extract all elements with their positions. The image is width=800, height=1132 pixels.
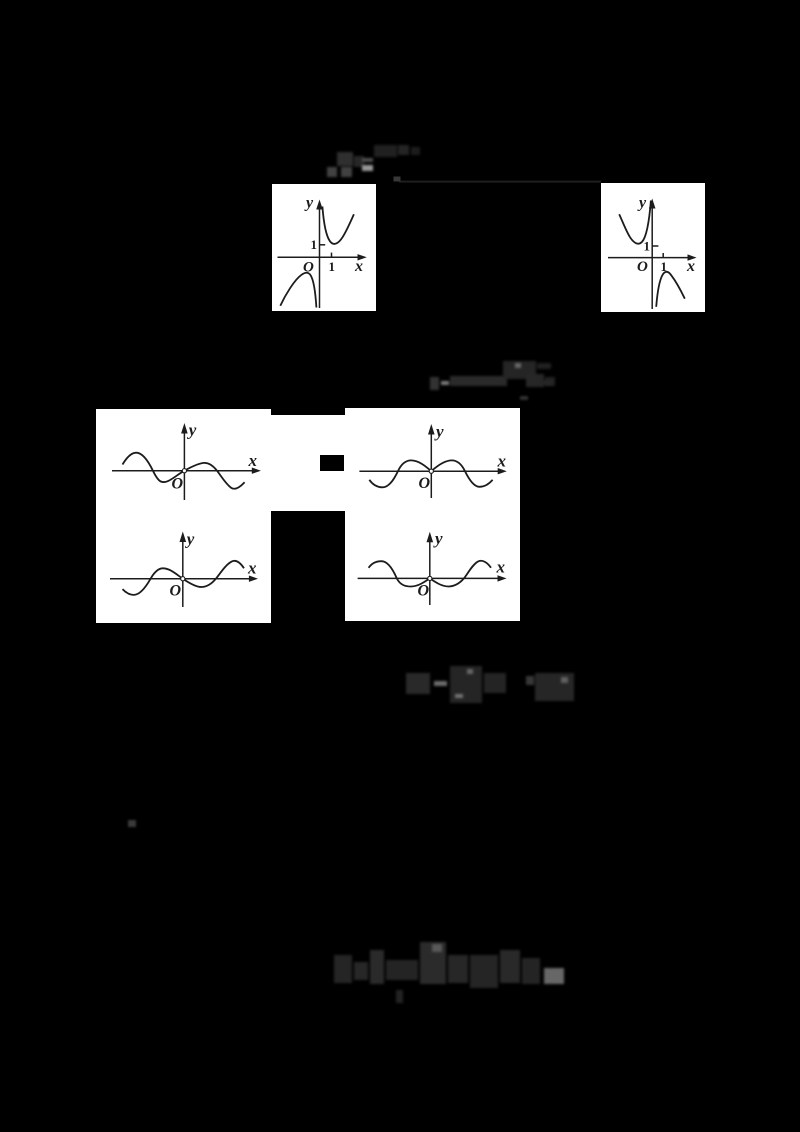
svg-text:O: O	[418, 583, 430, 600]
black square in gap	[320, 455, 344, 471]
white box 1	[272, 184, 376, 311]
svg-text:y: y	[433, 529, 443, 548]
sine graph bottom-left arrowheads	[180, 532, 187, 543]
svg-text:1: 1	[661, 259, 668, 274]
sine graph top-left axes	[112, 430, 253, 500]
svg-text:1: 1	[644, 239, 651, 254]
faint dot mid-left	[128, 820, 136, 827]
svg-text:O: O	[419, 475, 431, 492]
sine graph top-right curve	[369, 460, 492, 487]
sine graph top-right axes	[359, 431, 498, 498]
svg-text:x: x	[686, 258, 695, 275]
white gap strip	[271, 415, 345, 511]
sine graph bottom-right origin circle	[428, 576, 432, 580]
sine graph bottom-right axes	[358, 539, 499, 605]
sine graph top-right arrowheads	[428, 424, 435, 435]
box2 arrowheads	[649, 199, 656, 209]
svg-text:y: y	[304, 195, 314, 212]
sine graph top-left arrowheads	[181, 423, 188, 434]
box1 curve right branch	[322, 207, 354, 244]
svg-text:x: x	[247, 559, 257, 578]
box2 axes	[608, 207, 689, 309]
white left sine box	[96, 409, 271, 623]
svg-text:y: y	[637, 195, 647, 212]
sine graph bottom-left origin circle	[181, 577, 185, 581]
svg-text:O: O	[303, 260, 314, 276]
svg-text:x: x	[354, 258, 363, 275]
faint formula 1	[327, 145, 420, 177]
faint mark above right sine box	[520, 380, 552, 400]
sine graph top-left origin circle	[182, 469, 186, 473]
svg-text:y: y	[187, 421, 197, 440]
faint formula 2	[430, 361, 555, 390]
sine graph top-right origin circle	[429, 469, 433, 473]
svg-text:y: y	[185, 530, 195, 549]
svg-text:O: O	[637, 259, 648, 275]
sine graph top-left curve	[123, 453, 245, 489]
sine graph bottom-left curve	[123, 561, 245, 595]
white box 2	[601, 183, 705, 312]
box1 y-axis	[278, 207, 360, 308]
faint formula 4	[334, 942, 564, 1003]
white right sine box	[345, 408, 520, 621]
box1 arrowheads	[316, 200, 323, 210]
box1 curve left branch	[280, 273, 316, 308]
svg-text:x: x	[497, 452, 507, 471]
box2 curve left branch	[619, 201, 651, 244]
svg-text:1: 1	[311, 237, 318, 252]
sine graph bottom-right curve	[369, 561, 491, 587]
svg-text:O: O	[172, 476, 184, 493]
svg-text:1: 1	[329, 259, 336, 274]
svg-text:O: O	[170, 583, 182, 600]
faint formula 3	[406, 666, 574, 703]
box2 curve right branch	[656, 272, 685, 307]
svg-text:x: x	[248, 451, 258, 470]
faint rule between box1 and box2	[399, 181, 601, 183]
sine graph bottom-right arrowheads	[427, 532, 434, 543]
sine graph bottom-left axes	[110, 539, 250, 607]
svg-text:y: y	[434, 422, 444, 441]
svg-text:x: x	[496, 558, 506, 577]
